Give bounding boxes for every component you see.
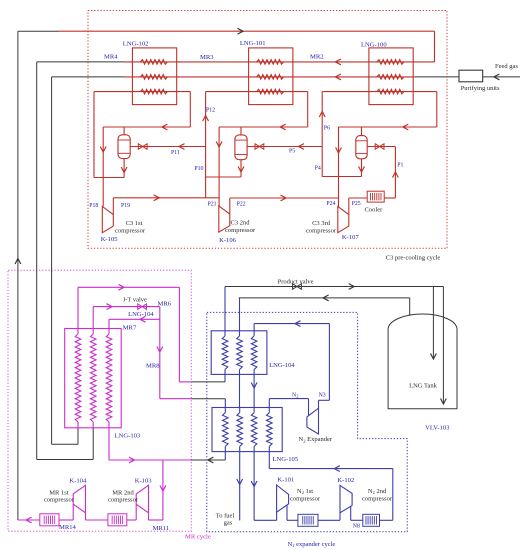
svg-text:To fuel: To fuel: [216, 513, 235, 520]
svg-text:P25: P25: [352, 201, 361, 207]
svg-text:P11: P11: [171, 150, 180, 156]
svg-text:N8: N8: [353, 524, 360, 530]
svg-text:P1: P1: [397, 163, 403, 169]
svg-text:LNG-104: LNG-104: [269, 362, 295, 369]
svg-text:P12: P12: [206, 108, 215, 114]
svg-text:P18: P18: [89, 203, 98, 209]
svg-text:J-T valve: J-T valve: [123, 296, 147, 303]
svg-text:N3: N3: [319, 392, 326, 398]
svg-text:P10: P10: [194, 166, 203, 172]
svg-text:P21: P21: [208, 201, 217, 207]
svg-text:LNG-101: LNG-101: [240, 40, 266, 47]
svg-text:P19: P19: [121, 203, 130, 209]
svg-text:compressor: compressor: [225, 227, 256, 234]
svg-text:K-106: K-106: [219, 237, 237, 244]
svg-text:MR 2nd: MR 2nd: [112, 490, 134, 497]
svg-text:LNG-100: LNG-100: [361, 41, 387, 48]
svg-text:P5: P5: [289, 148, 295, 154]
svg-text:MR7: MR7: [123, 325, 137, 332]
svg-text:compressor: compressor: [108, 497, 139, 504]
svg-text:P24: P24: [326, 201, 335, 207]
svg-text:compressor: compressor: [362, 496, 393, 503]
svg-text:K-105: K-105: [101, 236, 119, 243]
svg-text:MR2: MR2: [310, 54, 324, 61]
svg-text:Product valve: Product valve: [278, 279, 314, 286]
svg-text:K-107: K-107: [342, 234, 360, 241]
svg-text:MR 1st: MR 1st: [49, 490, 69, 497]
svg-text:LNG-103: LNG-103: [115, 432, 141, 439]
svg-text:MR8: MR8: [146, 362, 160, 369]
svg-text:compressor: compressor: [44, 497, 75, 504]
svg-text:MR6: MR6: [158, 300, 172, 307]
svg-text:P22: P22: [237, 201, 246, 207]
svg-text:Feed gas: Feed gas: [495, 63, 518, 70]
svg-text:K-101: K-101: [277, 476, 294, 483]
svg-text:LNG Tank: LNG Tank: [409, 383, 438, 390]
svg-text:N2: N2: [292, 392, 299, 398]
svg-text:gas: gas: [224, 520, 233, 527]
svg-text:Cooler: Cooler: [365, 206, 384, 213]
svg-text:N2 1st: N2 1st: [297, 488, 313, 495]
svg-text:K-104: K-104: [69, 478, 87, 485]
svg-text:Purifying units: Purifying units: [461, 85, 500, 92]
svg-text:C3 3rd: C3 3rd: [312, 220, 331, 227]
svg-text:MR11: MR11: [153, 525, 170, 532]
svg-text:P4: P4: [315, 166, 321, 172]
svg-text:LNG-105: LNG-105: [273, 456, 299, 463]
svg-text:P6: P6: [324, 125, 330, 131]
svg-text:LNG-102: LNG-102: [123, 40, 149, 47]
svg-text:LNG-104: LNG-104: [128, 311, 154, 318]
svg-text:K-102: K-102: [337, 477, 354, 484]
svg-text:C3 pre-cooling cycle: C3 pre-cooling cycle: [386, 254, 441, 261]
svg-text:MR cycle: MR cycle: [185, 534, 211, 541]
svg-text:compressor: compressor: [290, 496, 321, 503]
svg-text:VLV-103: VLV-103: [425, 425, 450, 432]
svg-text:N2 2nd: N2 2nd: [368, 488, 387, 495]
svg-text:compressor: compressor: [306, 228, 337, 235]
svg-text:C3 2nd: C3 2nd: [231, 220, 251, 227]
svg-text:MR3: MR3: [200, 54, 214, 61]
svg-text:MR4: MR4: [104, 53, 118, 60]
svg-text:compressor: compressor: [115, 227, 146, 234]
svg-text:N2 expander cycle: N2 expander cycle: [288, 541, 336, 548]
svg-text:MR14: MR14: [59, 524, 77, 531]
svg-text:C3 1st: C3 1st: [126, 220, 143, 227]
svg-text:K-103: K-103: [135, 478, 153, 485]
